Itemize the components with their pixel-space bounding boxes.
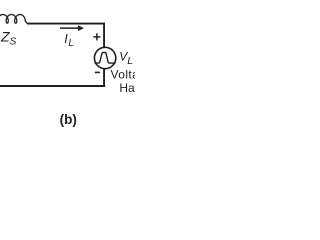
background [0, 0, 135, 135]
wire right vertical upper [103, 23, 105, 48]
svg-text:Harmonics: Harmonics [119, 81, 135, 95]
wire top horizontal [27, 23, 105, 25]
wire bottom horizontal [0, 85, 105, 87]
svg-text:(b): (b) [60, 112, 77, 127]
svg-text:Voltage: Voltage [111, 67, 136, 81]
inductor ZS coil [0, 15, 28, 24]
wire right vertical lower [103, 68, 105, 86]
harmonic waveform inside source [95, 53, 116, 64]
source circle U1 [94, 47, 115, 68]
arrow IL [60, 27, 81, 29]
minus sign [95, 71, 100, 73]
plus sign [93, 33, 100, 40]
